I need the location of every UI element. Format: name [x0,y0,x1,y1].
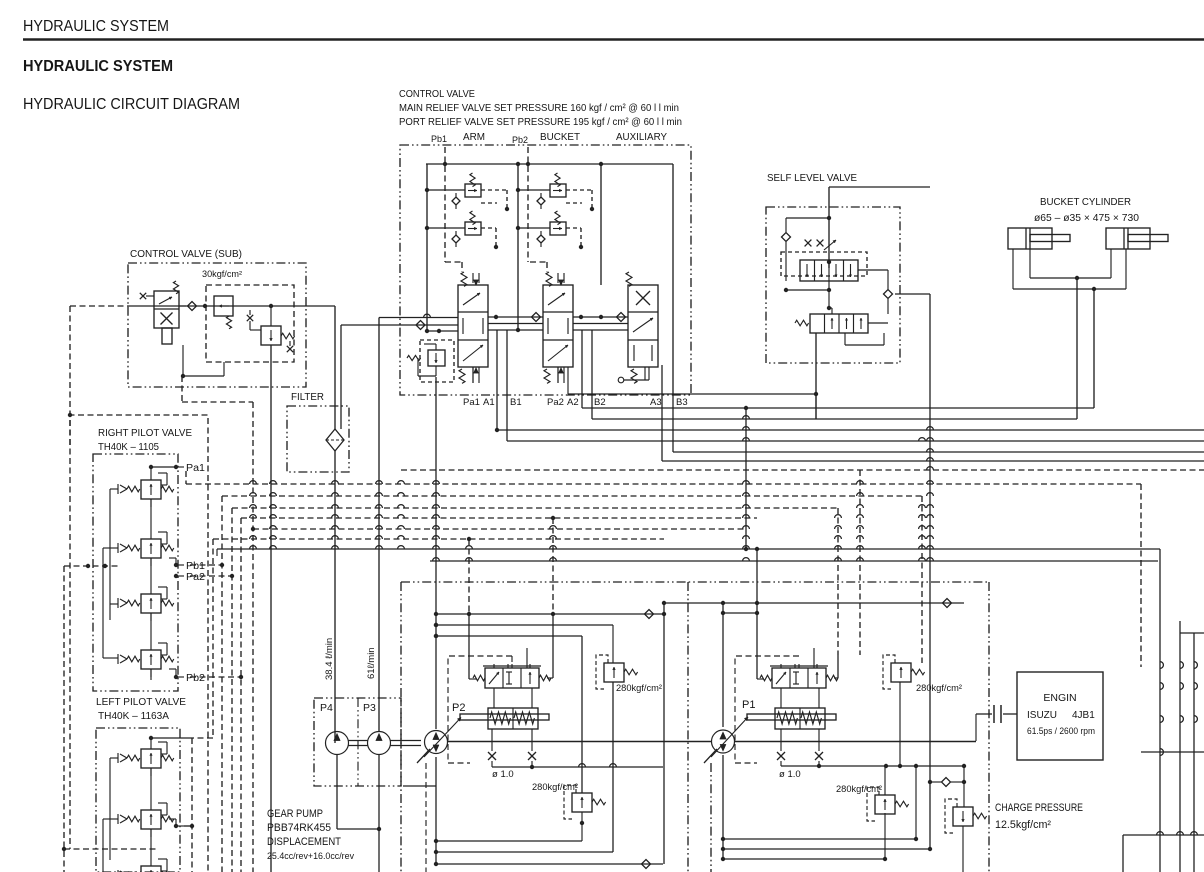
svg-text:ARM: ARM [463,131,485,143]
svg-text:4JB1: 4JB1 [1072,710,1095,721]
svg-text:38.4 ℓ/min: 38.4 ℓ/min [324,638,335,680]
svg-text:Pa1: Pa1 [186,463,205,474]
svg-text:CONTROL VALVE (SUB): CONTROL VALVE (SUB) [130,248,242,260]
svg-text:SELF LEVEL VALVE: SELF LEVEL VALVE [767,172,857,184]
svg-text:Pb2: Pb2 [186,673,205,684]
svg-text:12.5kgf/cm²: 12.5kgf/cm² [995,819,1051,831]
svg-text:HYDRAULIC CIRCUIT DIAGRAM: HYDRAULIC CIRCUIT DIAGRAM [23,96,240,113]
svg-text:P2: P2 [452,702,465,714]
svg-text:MAIN RELIEF VALVE SET PRESSURE: MAIN RELIEF VALVE SET PRESSURE 160 kgf /… [399,102,679,114]
svg-text:25.4cc/rev+16.0cc/rev: 25.4cc/rev+16.0cc/rev [267,851,354,862]
svg-text:RIGHT PILOT VALVE: RIGHT PILOT VALVE [98,427,192,439]
svg-text:LEFT PILOT VALVE: LEFT PILOT VALVE [96,696,186,708]
svg-text:A3: A3 [650,397,662,408]
svg-text:61.5ps / 2600 rpm: 61.5ps / 2600 rpm [1027,726,1095,736]
svg-text:280kgf/cm²: 280kgf/cm² [616,683,662,694]
svg-text:TH40K – 1163A: TH40K – 1163A [98,710,169,722]
svg-text:PORT RELIEF VALVE SET PRESSURE: PORT RELIEF VALVE SET PRESSURE 195 kgf /… [399,116,682,128]
svg-text:30kgf/cm²: 30kgf/cm² [202,269,242,279]
svg-text:CHARGE PRESSURE: CHARGE PRESSURE [995,802,1083,814]
svg-text:CONTROL VALVE: CONTROL VALVE [399,88,475,100]
svg-text:B2: B2 [594,397,606,408]
svg-text:DISPLACEMENT: DISPLACEMENT [267,836,341,848]
svg-text:ISUZU: ISUZU [1027,710,1057,721]
svg-text:HYDRAULIC SYSTEM: HYDRAULIC SYSTEM [23,18,169,35]
svg-text:AUXILIARY: AUXILIARY [616,131,667,143]
svg-text:ø 1.0: ø 1.0 [492,769,514,780]
svg-text:280kgf/cm²: 280kgf/cm² [532,782,578,793]
svg-text:P4: P4 [320,702,333,714]
svg-text:B3: B3 [676,397,688,408]
svg-text:BUCKET: BUCKET [540,131,581,143]
svg-text:GEAR PUMP: GEAR PUMP [267,808,323,820]
svg-text:HYDRAULIC SYSTEM: HYDRAULIC SYSTEM [23,58,173,75]
svg-text:Pa2: Pa2 [547,397,564,408]
svg-text:PBB74RK455: PBB74RK455 [267,822,331,834]
svg-text:B1: B1 [510,397,522,408]
svg-text:FILTER: FILTER [291,391,324,403]
svg-text:A1: A1 [483,397,495,408]
svg-text:280kgf/cm²: 280kgf/cm² [916,683,962,694]
svg-text:61ℓ/min: 61ℓ/min [366,647,377,679]
svg-text:TH40K – 1105: TH40K – 1105 [98,441,159,453]
svg-text:Pb1: Pb1 [431,134,447,145]
svg-text:ø65 – ø35 × 475 × 730: ø65 – ø35 × 475 × 730 [1034,212,1139,224]
svg-text:ENGIN: ENGIN [1043,692,1076,704]
svg-text:Pa1: Pa1 [463,397,480,408]
svg-text:Pa2: Pa2 [186,572,205,583]
svg-text:BUCKET CYLINDER: BUCKET CYLINDER [1040,196,1131,208]
svg-text:P3: P3 [363,702,376,714]
svg-text:ø 1.0: ø 1.0 [779,769,801,780]
svg-text:P1: P1 [742,699,755,711]
svg-text:280kgf/cm²: 280kgf/cm² [836,784,882,795]
svg-text:A2: A2 [567,397,579,408]
svg-text:Pb1: Pb1 [186,561,205,572]
